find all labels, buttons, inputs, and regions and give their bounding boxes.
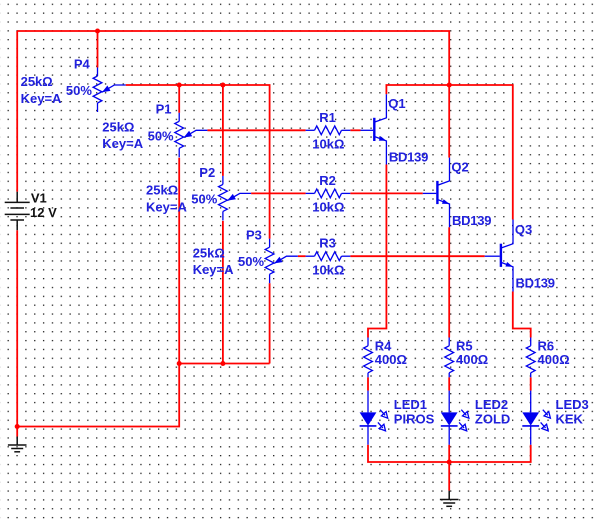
svg-text:25kΩ: 25kΩ <box>102 120 134 135</box>
svg-text:Key=A: Key=A <box>21 91 62 106</box>
svg-text:Key=A: Key=A <box>193 262 234 277</box>
svg-text:PIROS: PIROS <box>394 412 435 427</box>
svg-text:50%: 50% <box>66 83 92 98</box>
svg-text:R2: R2 <box>319 173 336 188</box>
svg-text:50%: 50% <box>238 254 264 269</box>
svg-text:50%: 50% <box>148 128 174 143</box>
svg-text:25kΩ: 25kΩ <box>193 245 225 260</box>
svg-text:LED1: LED1 <box>394 397 427 412</box>
svg-text:R3: R3 <box>319 236 336 251</box>
svg-text:LED2: LED2 <box>475 397 508 412</box>
svg-text:P4: P4 <box>74 56 91 71</box>
svg-text:400Ω: 400Ω <box>456 352 488 367</box>
svg-text:25kΩ: 25kΩ <box>146 183 178 198</box>
svg-text:10kΩ: 10kΩ <box>312 137 344 152</box>
svg-text:400Ω: 400Ω <box>538 352 570 367</box>
svg-text:V1: V1 <box>31 190 47 205</box>
svg-text:10kΩ: 10kΩ <box>312 263 344 278</box>
svg-text:P3: P3 <box>246 228 262 243</box>
svg-text:10kΩ: 10kΩ <box>312 200 344 215</box>
svg-text:P1: P1 <box>156 102 172 117</box>
svg-text:Key=A: Key=A <box>146 199 187 214</box>
svg-text:R1: R1 <box>319 110 336 125</box>
svg-text:BD139: BD139 <box>516 276 555 291</box>
svg-text:LED3: LED3 <box>556 397 589 412</box>
svg-text:25kΩ: 25kΩ <box>21 74 53 89</box>
svg-text:Q1: Q1 <box>388 96 405 111</box>
svg-text:BD139: BD139 <box>389 150 428 165</box>
svg-text:12 V: 12 V <box>30 205 57 220</box>
svg-text:Q2: Q2 <box>451 159 468 174</box>
svg-text:P2: P2 <box>199 165 215 180</box>
svg-text:400Ω: 400Ω <box>375 352 407 367</box>
svg-text:Key=A: Key=A <box>102 136 143 151</box>
svg-text:KEK: KEK <box>556 412 584 427</box>
svg-text:50%: 50% <box>191 191 217 206</box>
svg-text:ZOLD: ZOLD <box>475 412 510 427</box>
svg-text:BD139: BD139 <box>452 213 491 228</box>
svg-text:Q3: Q3 <box>515 222 532 237</box>
